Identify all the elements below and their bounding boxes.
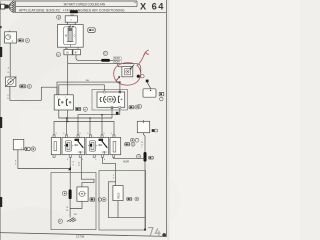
label tag (black) for F1 <box>18 39 24 42</box>
U1 bracket symbol right <box>118 96 120 102</box>
K2 contact diagonal <box>78 141 83 147</box>
U1 top pin squares <box>103 91 105 93</box>
relay row circle label <box>131 142 135 146</box>
relay K1 inner rounded box <box>64 27 76 45</box>
wire X3 bottom diagonal down to splice S2 <box>143 133 145 152</box>
top edge grey sliver <box>0 0 16 1</box>
bus B drop to relay2 coil <box>89 118 91 136</box>
left edge black mark 3 <box>0 197 2 207</box>
handwritten page number 4 <box>155 228 160 236</box>
component M2 (box with crossed circle) <box>5 77 16 87</box>
svg-text:H: H <box>138 155 140 159</box>
circle label above splice S1 <box>103 51 107 55</box>
R1 bottom pin <box>53 155 55 158</box>
U1 bracket symbol left <box>104 96 106 103</box>
bus A (y=114.7) <box>78 115 120 136</box>
U1 top pin dot <box>119 91 121 93</box>
svg-text:3: 3 <box>87 133 88 135</box>
relay K1 grey core bar <box>68 28 72 42</box>
subtle shadow right of page border <box>167 0 169 240</box>
wire from B1 arrow down to bus junction <box>116 80 120 82</box>
splice S2 (black bar) <box>144 152 147 162</box>
X3 label pair right <box>152 129 155 132</box>
K3 coil <box>89 141 95 152</box>
wire F1 down to M2 <box>9 43 11 77</box>
svg-text:13736: 13736 <box>76 234 85 238</box>
R3 circle label left <box>102 198 106 202</box>
header middle divider line <box>16 6 137 8</box>
circle label M in enclosure <box>62 191 66 195</box>
svg-text:B: B <box>29 85 31 89</box>
K3 contact gap marks <box>99 144 100 145</box>
K2 coil <box>65 141 71 152</box>
resistor box R2 (right of relay row) <box>110 137 121 154</box>
black connector square <box>146 80 149 83</box>
bus B (y=118) from X1 <box>59 110 112 118</box>
paper texture blobs <box>0 10 80 110</box>
circle label right of B1 <box>141 75 144 78</box>
K3 bottom pins <box>93 155 95 158</box>
box X2 (right stub box) <box>143 89 156 97</box>
thermal switch B1 circle <box>126 70 129 73</box>
wire diagonal from square to box X2 <box>147 82 151 89</box>
label tag right of S2 <box>149 156 153 159</box>
header bottom line <box>16 12 167 14</box>
relay K3 box <box>86 137 109 154</box>
resistor box R1 (left of relay row) <box>51 137 60 154</box>
junction dot bottom-right corner <box>144 229 146 231</box>
svg-text:5: 5 <box>104 133 105 135</box>
R3 circle label right <box>135 197 139 201</box>
svg-text:4: 4 <box>82 159 83 161</box>
label tag (black) for M2 <box>20 85 26 88</box>
svg-text:4: 4 <box>104 159 105 161</box>
wire lower horizontal to thermal switch area <box>68 64 141 74</box>
svg-text:3: 3 <box>63 133 64 135</box>
splice S3 (black bar) <box>69 189 72 199</box>
svg-text:NOIR: NOIR <box>114 58 120 60</box>
svg-text:2: 2 <box>67 159 68 161</box>
wire P1: relay K2 coil pin down to splice S3 <box>69 157 71 190</box>
pin number specks above relay row <box>56 133 112 161</box>
red annotation loop around B1 <box>114 63 141 85</box>
left edge small dash <box>0 26 2 28</box>
svg-text:G: G <box>132 142 134 146</box>
circle label for M2 <box>27 84 31 88</box>
K2 tag label inside <box>75 139 80 141</box>
R3 label tag right <box>127 197 132 200</box>
circle label below-left of K1 <box>56 53 60 57</box>
wire S2 down to bottom-right box corner <box>144 162 146 230</box>
K2 bottom pins <box>69 155 71 158</box>
svg-text:X 64: X 64 <box>140 2 165 12</box>
svg-text:1: 1 <box>56 133 57 135</box>
svg-text:340 WATT 2-SPEED COOLING FAN: 340 WATT 2-SPEED COOLING FAN <box>64 3 106 7</box>
U1 label tag right <box>129 106 134 109</box>
header cell divider vertical <box>136 1 138 7</box>
K3 top pins <box>89 135 91 138</box>
X1 pin bracket left <box>59 99 61 105</box>
U1 circle label right <box>135 105 139 109</box>
bus wire 1 (y=82) from X1 to module U1 <box>57 82 120 95</box>
black square beside wire <box>116 112 119 115</box>
svg-text:1: 1 <box>111 133 112 135</box>
relay row label tag <box>125 143 130 146</box>
svg-text:F: F <box>136 105 138 109</box>
X1 pin bracket right <box>66 99 68 105</box>
F2 label rounded tag <box>25 147 30 150</box>
wire M2 down, right, up to connector X1 <box>10 86 57 100</box>
ground symbol <box>67 217 76 222</box>
connector icon (top-left multi-pin) <box>1 1 16 13</box>
thermal switch B1 inner box <box>125 69 131 75</box>
wire P4: R2 pin down right to splice wire <box>114 157 145 158</box>
wire U1 bottom pin to bus B <box>111 108 113 118</box>
ink blob after 74 <box>162 233 166 237</box>
R1 top pin <box>53 135 55 138</box>
motor M1 circle <box>79 191 84 196</box>
circle label left of S2 <box>137 154 141 158</box>
motor M1 box <box>77 187 88 201</box>
left edge black mark 1 <box>0 47 2 57</box>
K2 top pins <box>65 135 67 138</box>
bottom-right box (resistor unit) <box>99 171 146 230</box>
relay K1 pin dots <box>68 26 70 28</box>
circle label right of X1 tag <box>83 107 87 111</box>
F2 circle label <box>31 147 35 151</box>
U1 pin symbol far-left <box>100 98 101 102</box>
circle label for F1 <box>25 39 29 43</box>
svg-text:M: M <box>65 34 67 37</box>
wire splice S3 down to ground <box>69 199 71 218</box>
left edge black mark 2 <box>0 117 2 128</box>
red annotation flick mark <box>143 50 148 56</box>
wire U1 bottom pin 2 to bus A <box>119 108 121 114</box>
svg-text:D: D <box>104 52 106 56</box>
svg-text:2: 2 <box>95 159 96 161</box>
wire F2 down and right to motor enclosure <box>18 150 70 169</box>
circled P (ground label) <box>58 219 62 223</box>
svg-text:B: B <box>58 15 60 19</box>
R2 top pin <box>113 135 115 138</box>
header top border line <box>16 0 137 2</box>
svg-text:C: C <box>74 34 76 37</box>
circle label lower-left of X2 <box>138 104 142 108</box>
svg-text:NOIR: NOIR <box>114 62 120 64</box>
svg-text:5: 5 <box>80 133 81 135</box>
wire M1 bottom stub <box>70 201 82 208</box>
relay K1 main box <box>58 25 84 48</box>
K2 bottom stub <box>78 152 83 155</box>
fuse box F2 (left, mid-low) <box>13 139 23 149</box>
label circle pair below X3 <box>131 138 135 142</box>
K3 tag label inside <box>99 139 104 141</box>
wire from K1 left terminal down to connector X1 (through junction) <box>67 55 69 95</box>
relay K2 box <box>62 137 85 154</box>
splice S1 (black bar on upper wire) <box>101 59 110 62</box>
bus C (y=121.5) <box>54 110 114 136</box>
svg-text:A: A <box>27 39 29 43</box>
svg-text:RES: RES <box>117 193 121 199</box>
connector arrow top-right into B1 <box>130 65 134 69</box>
bus B drop to relay1 coil <box>66 118 68 136</box>
K2 contact gap marks <box>75 144 76 145</box>
thermal switch B1 outer box <box>122 67 133 77</box>
wire P2: relay K2 contact pin down into motor top (jog) <box>81 157 94 187</box>
red annotation tail <box>137 52 146 65</box>
handwritten page number 7 <box>148 228 153 236</box>
U1 bracket symbol mid-right <box>113 96 115 103</box>
svg-text:C: C <box>57 53 59 57</box>
relay K1 (top centre) circled letter <box>57 15 61 19</box>
U1 centre square with dot <box>108 96 113 102</box>
relay K1 connector code label <box>88 28 95 33</box>
bus A drop to relay2 contact <box>101 115 103 136</box>
right margin lighter paper <box>167 0 300 240</box>
M1 label tag right <box>90 198 95 201</box>
left scan edge line <box>0 0 1 240</box>
resistor R3 inside <box>113 186 123 201</box>
connector arrow on wire P1 <box>68 167 71 171</box>
wire hairpin branch inside box <box>108 182 118 218</box>
R2 bottom pin <box>113 155 115 158</box>
relay module U1 outer enclosure <box>92 89 128 110</box>
relay module U1 (centre) <box>97 92 125 107</box>
box X3 (right, above splice) <box>137 121 149 132</box>
junction dot at B1 wire joining bus1 <box>119 81 121 83</box>
wire R3 bottom to corner <box>118 201 145 218</box>
connector arrow bottom-left into B1 <box>116 77 120 81</box>
K3 bottom stub <box>102 152 107 155</box>
svg-text:P: P <box>59 220 61 224</box>
relay K1 top connector box <box>65 16 77 22</box>
U1 bottom pin squares <box>111 106 113 108</box>
black tag BM51 on header line <box>70 10 78 13</box>
label tag right of X1 <box>75 107 80 110</box>
component F1 (top-left box with pump circle) <box>5 31 17 45</box>
connector X1 (left connector box) <box>54 95 73 110</box>
wire P3: relay K3 contact pin down right to resistor box <box>103 157 116 185</box>
svg-text:A: A <box>84 107 86 111</box>
page right border <box>165 0 167 237</box>
wire colour tag NOIR (lower) <box>113 60 121 63</box>
label pair right of X2 <box>159 92 164 95</box>
motor enclosure (bottom left) <box>51 173 96 230</box>
black dot label right of B1 <box>137 75 140 78</box>
K3 contact diagonal <box>102 141 107 147</box>
bus wire 2 (y=84.8) to module U1 <box>59 85 105 95</box>
page bottom border line <box>0 233 166 237</box>
svg-text:NOIR: NOIR <box>123 160 129 163</box>
wire upper: K1 right terminal to splice and thermal switch <box>76 55 122 67</box>
wire colour tag NOIR (upper) <box>113 57 121 60</box>
